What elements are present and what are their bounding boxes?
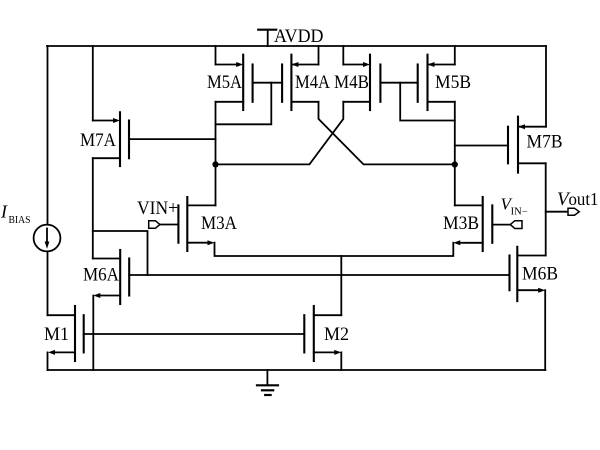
svg-text:M3B: M3B xyxy=(443,213,479,234)
wire AVDD rail xyxy=(47,45,546,47)
wire M6A gate to M6B gate xyxy=(129,274,509,276)
svg-text:M2: M2 xyxy=(324,324,349,345)
svg-text:I: I xyxy=(0,201,8,221)
wire M4B source riser xyxy=(342,46,344,65)
wire M4A drain cross-couple to right node xyxy=(319,102,455,165)
ground xyxy=(257,370,278,395)
svg-text:M4B: M4B xyxy=(334,72,369,93)
wire M5B source riser xyxy=(454,46,456,65)
wire M4B/M5B gate interconnect xyxy=(380,82,417,84)
wire M4B drain cross-couple to left node xyxy=(216,102,344,165)
wire M5A drain drop to left node xyxy=(215,102,217,206)
transistor M7A xyxy=(80,112,129,166)
svg-text:VIN+: VIN+ xyxy=(137,198,178,219)
transistor M3B xyxy=(443,197,492,251)
svg-text:BIAS: BIAS xyxy=(9,215,31,226)
buffer VIN- input flag xyxy=(492,194,528,228)
svg-text:M6A: M6A xyxy=(83,265,119,286)
svg-text:M5B: M5B xyxy=(435,72,471,93)
transistor M6B xyxy=(510,247,559,370)
svg-text:M7B: M7B xyxy=(527,132,563,153)
wire M7B drain to M6B drain (output branch) xyxy=(545,163,547,255)
svg-text:M4A: M4A xyxy=(295,72,330,93)
svg-text:AVDD: AVDD xyxy=(274,26,324,47)
transistor M1 xyxy=(44,306,84,370)
wire M7A drain down xyxy=(92,158,94,258)
transistor M5B xyxy=(418,55,471,110)
wire M1-M2 gate line xyxy=(84,333,305,335)
svg-text:M3A: M3A xyxy=(201,213,237,234)
node B (right load node) xyxy=(452,161,458,167)
transistor M4A xyxy=(282,55,330,110)
wire M5A source riser xyxy=(215,46,217,65)
wire gate tap down to left node xyxy=(216,83,272,125)
wire M7A drain to M6A gate tap xyxy=(93,231,148,275)
wire M7B source riser xyxy=(545,46,547,127)
output Vout1 flag xyxy=(546,189,599,215)
ground rail xyxy=(48,369,546,371)
wire gate tap down to right node xyxy=(400,83,455,121)
svg-text:M1: M1 xyxy=(44,324,69,345)
wire left bias branch (AVDD to current source) xyxy=(47,46,49,225)
wire M4A source riser xyxy=(318,46,320,65)
wire M5B drain drop to right node xyxy=(454,102,456,206)
wire current source to M1 drain xyxy=(47,251,49,315)
transistor M7B xyxy=(508,117,563,173)
wire M7A source riser xyxy=(92,46,94,121)
wire tail (M3A/M3B sources to M2 drain) xyxy=(215,243,454,256)
wire M7A gate to left node xyxy=(129,138,216,140)
svg-text:IN−: IN− xyxy=(511,207,528,218)
transistor M5A xyxy=(207,55,253,110)
wire M2 drain riser to tail xyxy=(340,256,342,315)
transistor M4B xyxy=(334,55,380,110)
buffer VIN+ input flag xyxy=(137,198,178,228)
svg-text:M6B: M6B xyxy=(522,264,558,285)
transistor M6A xyxy=(83,250,129,370)
svg-text:out1: out1 xyxy=(569,189,599,209)
svg-text:M5A: M5A xyxy=(207,72,242,93)
AVDD supply symbol xyxy=(258,26,323,47)
transistor M3A xyxy=(178,197,237,251)
node A (left load node) xyxy=(212,161,218,167)
current source IBIAS xyxy=(0,201,60,251)
wire M5A/M4A gate interconnect xyxy=(253,82,283,84)
transistor M2 xyxy=(304,306,349,370)
wire M7B gate to right node xyxy=(455,145,508,147)
svg-text:M7A: M7A xyxy=(80,130,116,151)
